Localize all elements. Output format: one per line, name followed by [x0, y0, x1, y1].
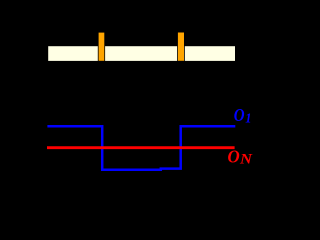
svg-text:1: 1: [245, 110, 251, 125]
svg-text:N: N: [239, 152, 253, 168]
svg-text:O: O: [234, 105, 245, 125]
svg-text:O: O: [228, 147, 240, 167]
